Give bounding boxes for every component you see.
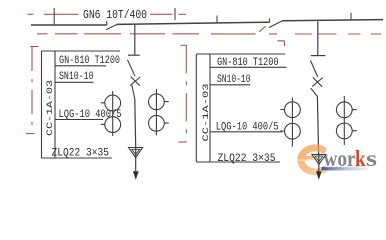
- wire: bus section 2: [117, 22, 270, 24]
- circuit breaker QF1 blade: [132, 85, 135, 99]
- current transformer CT2a circles: [285, 102, 301, 118]
- node tick T1 on tie line: [53, 8, 55, 25]
- svg-text:SN10-10: SN10-10: [217, 74, 251, 86]
- circuit breaker QF2 cross: [312, 77, 322, 86]
- equipment table bay 1: [42, 51, 121, 158]
- wire: bay 2 cable tail: [318, 154, 320, 171]
- node tick on bus at x351: [350, 13, 352, 20]
- svg-text:k: k: [355, 146, 366, 171]
- wire: lower red dashed line: [37, 33, 381, 35]
- watermark swirl tail: [318, 165, 367, 170]
- circuit breaker QF1 cross: [130, 77, 140, 86]
- current transformer CT1a line: [112, 91, 114, 136]
- svg-text:SN10-10: SN10-10: [59, 71, 94, 83]
- svg-text:LQG-10 400/5: LQG-10 400/5: [216, 121, 279, 133]
- red break mark on dashed line: [259, 26, 266, 32]
- current transformer CT2a line: [291, 98, 293, 147]
- current transformer CT2b line: [343, 96, 345, 145]
- equipment table bay 2: [196, 54, 286, 162]
- disconnector QS1 contact bar: [128, 54, 140, 56]
- svg-text:GN-810 T1200: GN-810 T1200: [59, 55, 120, 67]
- wire: bay 1 feeder mid: [134, 99, 137, 147]
- wire: bay 2 feeder drop from bus: [317, 22, 319, 56]
- cable terminal symbol bay 2 (over watermark): [312, 154, 326, 164]
- red dashed bracket right of bay 1: [181, 44, 187, 46]
- red dashed bracket left of bay 1: [30, 46, 38, 48]
- disconnector QS2 contact bar: [311, 55, 326, 57]
- watermark swirl crossbar: [301, 158, 314, 159]
- svg-text:CC-1A-03: CC-1A-03: [201, 84, 211, 142]
- svg-text:CC-1A-03: CC-1A-03: [45, 80, 55, 136]
- disconnector QS1 blade: [128, 60, 136, 76]
- CT2a secondary ticks: [280, 110, 284, 132]
- current transformer CT1b line: [155, 89, 157, 135]
- cable terminal symbol bay 1: [129, 148, 143, 158]
- node tick T2 on tie line: [174, 8, 176, 20]
- node tick on bus at x217: [216, 16, 218, 24]
- red dashed bracket right of bay 2 (fragment): [278, 41, 285, 46]
- bus break symbol 1: [106, 21, 117, 30]
- arrow head bay 1 outgoing feeder: [133, 171, 139, 179]
- svg-text:GN-810 T1200: GN-810 T1200: [217, 57, 279, 69]
- wire: bus section 1: [31, 24, 107, 26]
- wire: bay 1 feeder drop from bus: [134, 25, 136, 55]
- wire: bus section 3: [283, 20, 384, 21]
- svg-text:ZLQ22 3×35: ZLQ22 3×35: [218, 153, 276, 165]
- current transformer CT1a circles: [105, 95, 121, 111]
- svg-text:wor: wor: [324, 146, 356, 171]
- CT1b secondary ticks: [165, 102, 169, 124]
- wire: top red dashed tie line segments: [28, 13, 187, 15]
- svg-text:GN6 10T/400: GN6 10T/400: [83, 8, 147, 22]
- svg-text:ZLQ22 3×35: ZLQ22 3×35: [52, 148, 110, 160]
- watermark eworks logo swirl: [301, 148, 368, 172]
- wire: bay 1 cable tail: [135, 148, 137, 172]
- circuit breaker QF2 blade: [311, 88, 318, 96]
- arrow head bay 2 outgoing feeder: [316, 171, 322, 180]
- disconnector QS2 blade: [310, 60, 317, 77]
- wire: bay 2 feeder mid: [317, 97, 318, 155]
- watermark blue bar: [322, 167, 370, 171]
- svg-text:s: s: [366, 146, 377, 171]
- CT2b secondary ticks: [352, 110, 356, 131]
- bus break symbol 2: [269, 18, 284, 27]
- CT1a secondary ticks: [101, 103, 105, 125]
- current transformer CT2b circles: [336, 102, 352, 118]
- current transformer CT1b circles: [149, 94, 165, 110]
